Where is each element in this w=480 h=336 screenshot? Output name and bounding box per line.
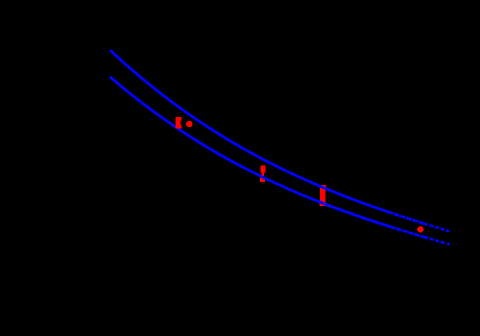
lower curve segment 2 [390, 227, 424, 237]
lower curve final dash [447, 242, 450, 246]
upper curve final dash [446, 229, 449, 233]
data point P2 marker (x~189) [186, 121, 192, 127]
data point P3 error bar (x~262) [260, 166, 266, 183]
upper curve segment 1 [110, 50, 388, 212]
upper curve segment 3 [424, 224, 446, 231]
data point P5 marker (x~420) [417, 226, 424, 232]
data point P4 error bar (x~322) [320, 185, 326, 206]
lower curve segment 1 [110, 77, 390, 227]
lower curve segment 3 [424, 237, 446, 243]
upper curve segment 2 [388, 212, 424, 224]
data point P1 with error bar (x~178) [176, 117, 182, 129]
